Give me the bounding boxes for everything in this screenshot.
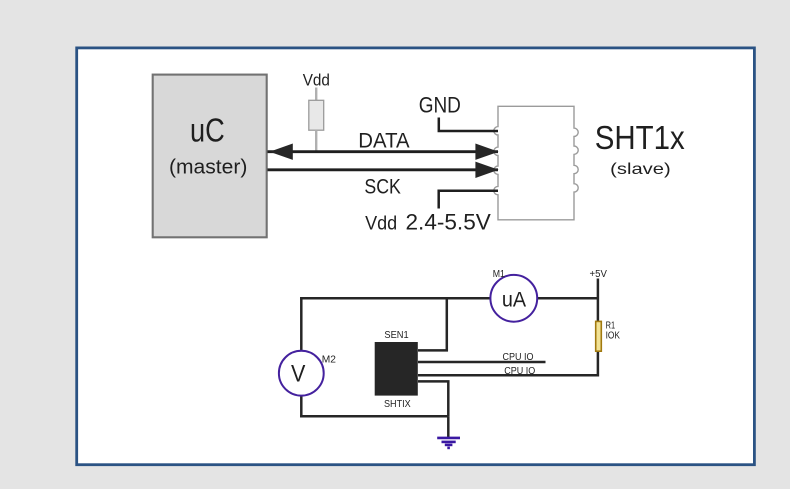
resistor R1	[596, 321, 602, 351]
wire pin2 CPU IO	[418, 361, 546, 364]
svg-text:CPU IO: CPU IO	[503, 351, 534, 363]
wire SCK	[268, 162, 499, 178]
wire left branch down to voltmeter	[300, 297, 303, 352]
wire Vdd to pin 4	[439, 191, 498, 209]
svg-text:CPU IO: CPU IO	[504, 365, 535, 377]
svg-text:(master): (master)	[169, 157, 247, 179]
svg-text:+5V: +5V	[590, 269, 608, 280]
wire voltmeter to bottom rail	[300, 395, 303, 418]
svg-text:GND: GND	[419, 93, 461, 118]
wire +5V down to R1	[597, 279, 600, 322]
svg-text:SCK: SCK	[364, 174, 401, 198]
svg-text:SEN1: SEN1	[384, 329, 408, 341]
panel frame	[77, 48, 755, 465]
wire top rail (V to uA to +5V node)	[300, 297, 598, 300]
wire pin4 down to ground node	[418, 381, 448, 416]
sensor SEN1 block	[375, 342, 418, 396]
svg-text:DATA: DATA	[358, 129, 409, 152]
wire GND to pin 1	[439, 118, 498, 132]
ground	[437, 438, 460, 448]
svg-text:Vdd: Vdd	[365, 213, 397, 234]
svg-text:(slave): (slave)	[610, 161, 671, 178]
wire bottom rail	[300, 415, 448, 418]
svg-text:IOK: IOK	[606, 330, 621, 341]
svg-text:V: V	[291, 360, 305, 387]
pull-up resistor on DATA	[309, 88, 324, 152]
svg-text:uA: uA	[502, 288, 526, 311]
svg-text:SHTIX: SHTIX	[384, 398, 411, 410]
svg-text:uC: uC	[190, 111, 225, 148]
svg-text:M1: M1	[493, 269, 506, 280]
wire pin1 of SEN1 up to top rail	[418, 300, 447, 351]
svg-text:SHT1x: SHT1x	[595, 119, 685, 156]
ammeter M1	[490, 275, 537, 322]
wire pin3 CPU IO to R1	[418, 352, 598, 376]
svg-text:M2: M2	[322, 354, 336, 366]
wire DATA (bidirectional)	[268, 144, 499, 160]
wire ground stem	[447, 416, 450, 437]
svg-text:Vdd: Vdd	[303, 71, 330, 90]
svg-text:2.4-5.5V: 2.4-5.5V	[406, 210, 491, 235]
IC SHT1x package outline	[494, 106, 578, 220]
microcontroller uC box	[153, 75, 267, 238]
voltmeter M2	[279, 351, 324, 396]
